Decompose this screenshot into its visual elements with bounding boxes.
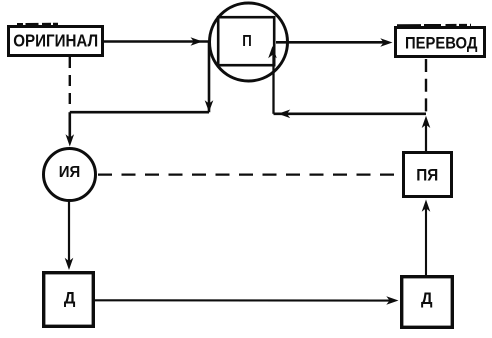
svg-text:ИЯ: ИЯ <box>59 164 81 181</box>
svg-text:П: П <box>242 33 252 50</box>
svg-text:Д: Д <box>64 289 76 308</box>
svg-text:Д: Д <box>421 289 433 308</box>
svg-text:ПЯ: ПЯ <box>416 167 438 185</box>
svg-text:ПЕРЕВОД: ПЕРЕВОД <box>405 34 478 53</box>
svg-text:ОРИГИНАЛ: ОРИГИНАЛ <box>13 31 98 51</box>
